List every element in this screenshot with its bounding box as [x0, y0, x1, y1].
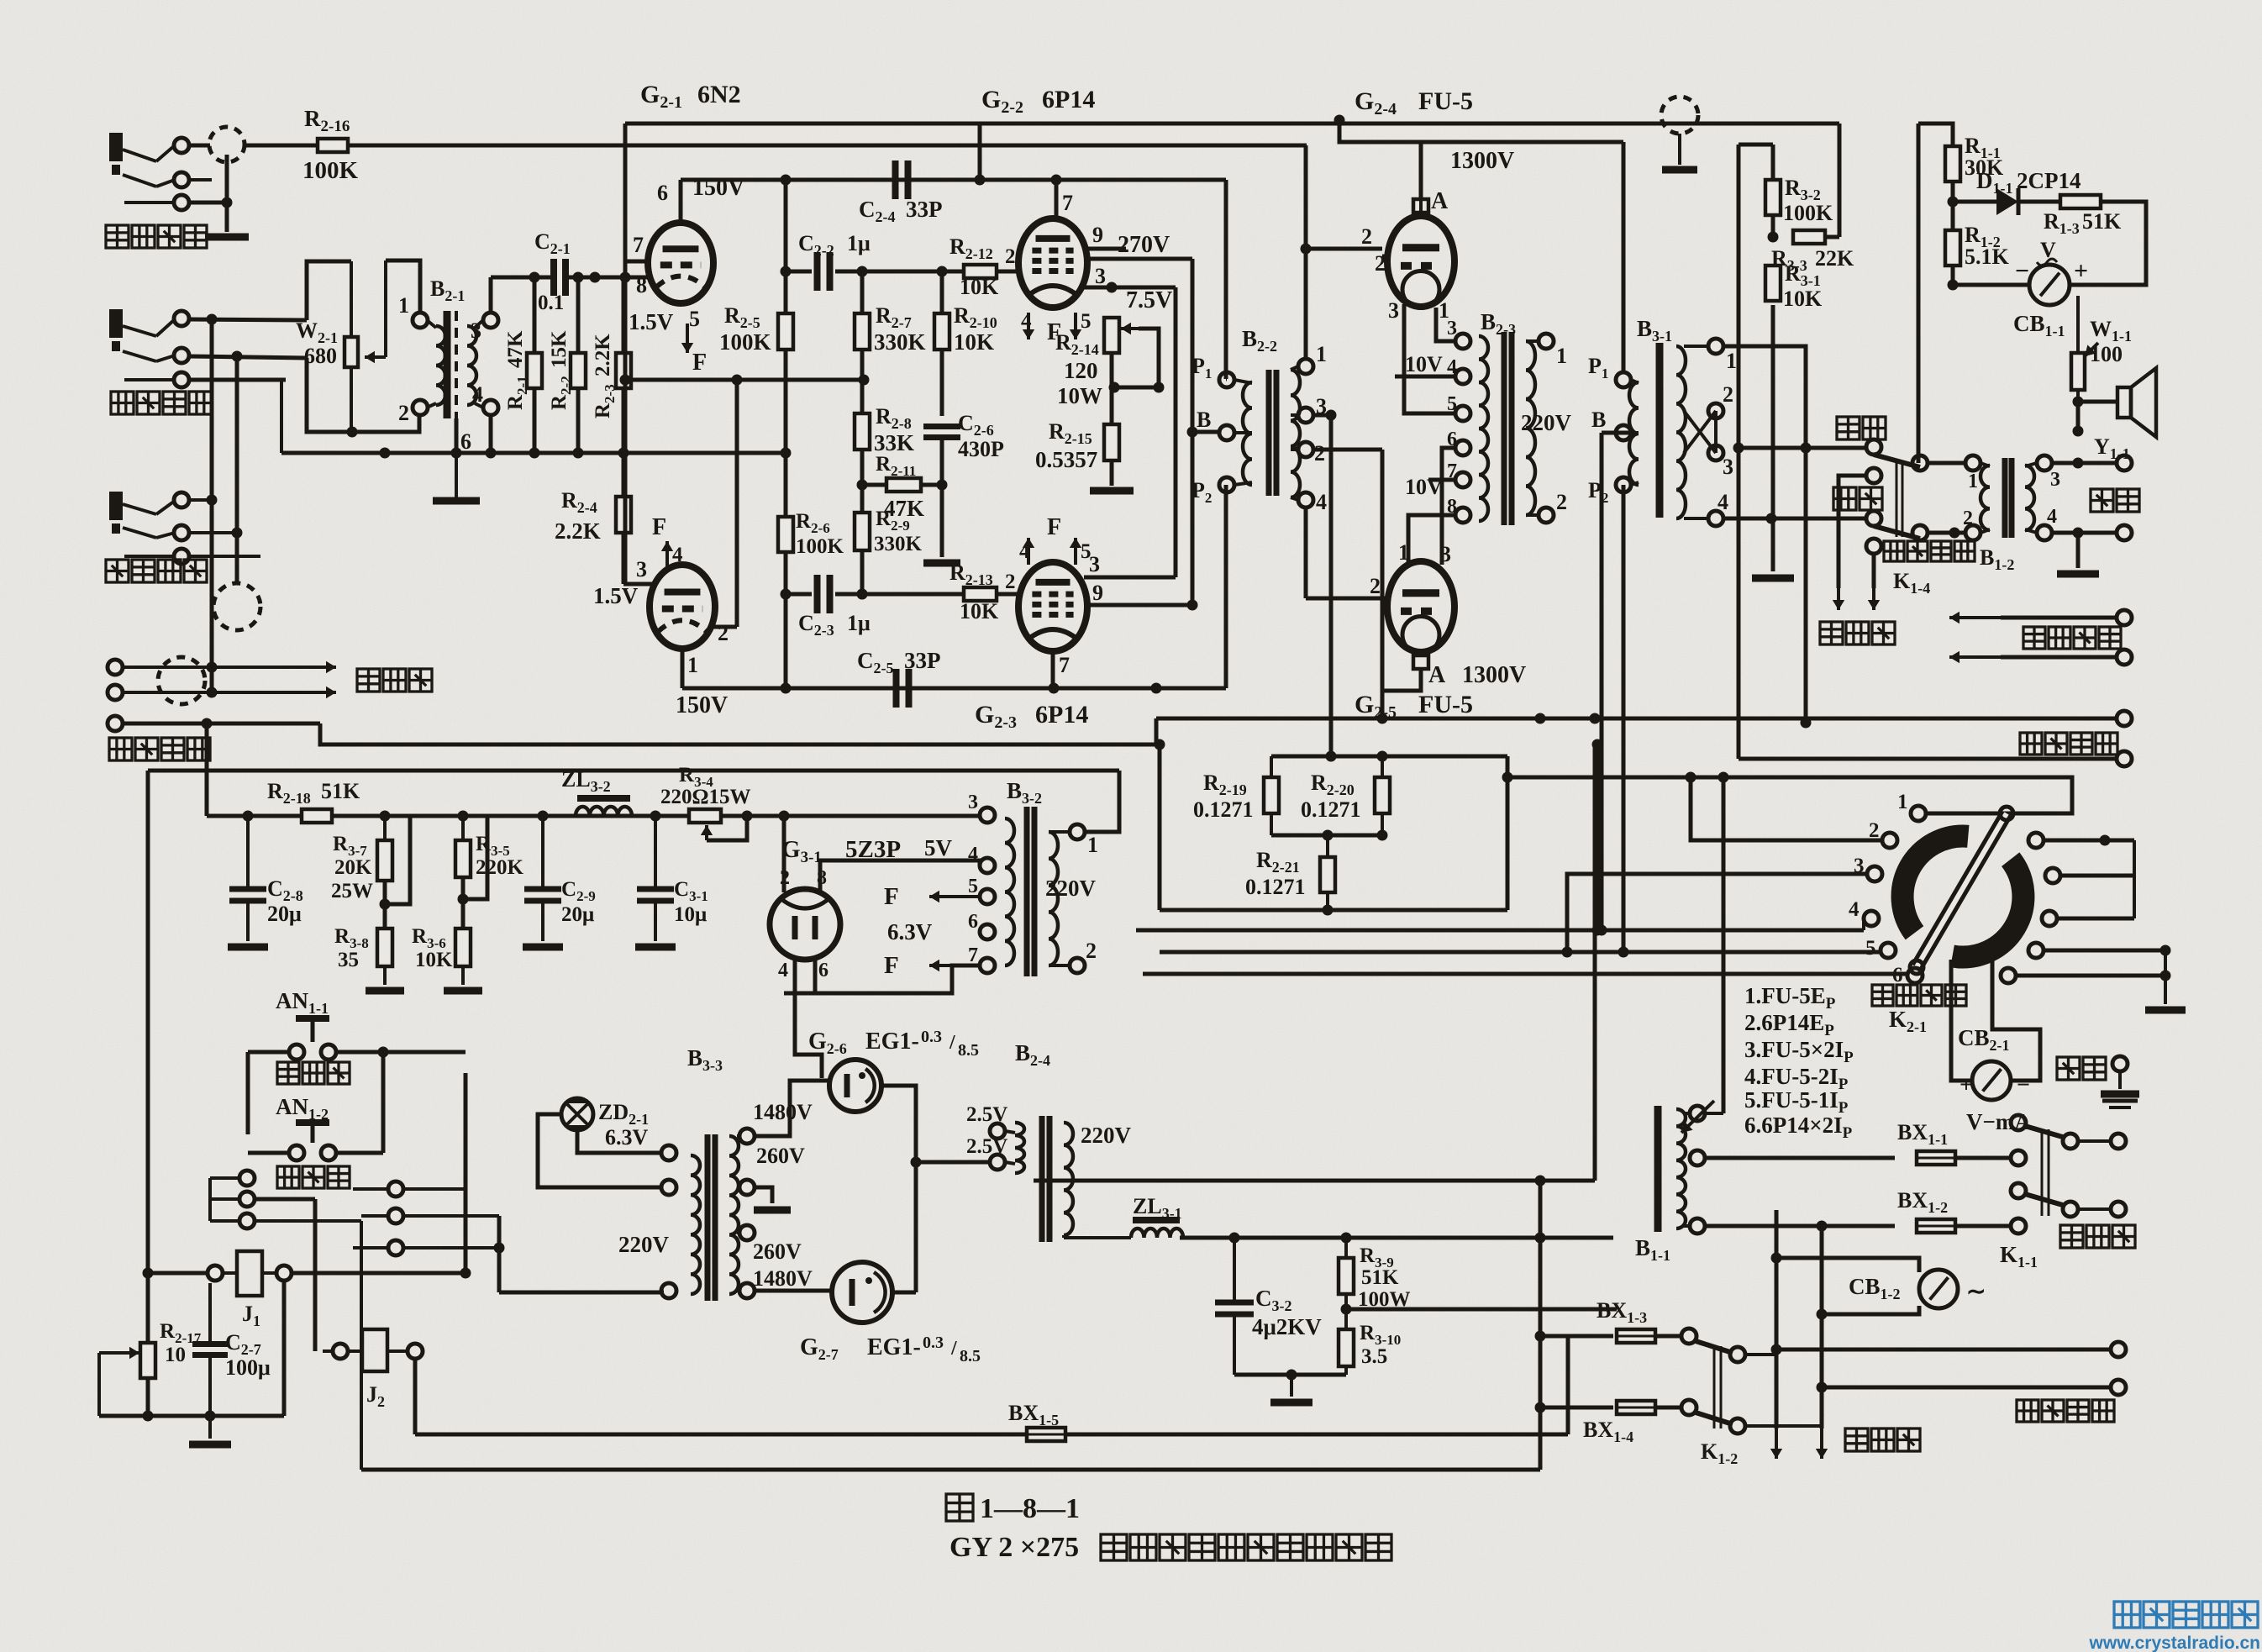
B2-3 left pin labels — [1447, 318, 1457, 518]
wire 1300V top — [1334, 115, 1624, 200]
svg-text:2CP14: 2CP14 — [2017, 168, 2081, 193]
wire left vertical J1 row — [143, 1268, 208, 1279]
wire G2-4 pin1 to B2-3 — [1436, 308, 1455, 341]
label R2-16 — [304, 106, 350, 135]
speaker Y1-1 — [2117, 368, 2156, 437]
svg-text:1: 1 — [1968, 471, 1978, 492]
resistor R1-1 — [1945, 146, 1960, 182]
svg-text:7: 7 — [633, 233, 644, 257]
B3-3 right coil — [729, 1136, 739, 1294]
wire C2-6 down — [937, 438, 948, 557]
B3-3 right terminals — [737, 1129, 755, 1298]
svg-text:10K: 10K — [960, 599, 999, 623]
fuse BX1-5 — [1027, 1428, 1065, 1441]
label G2-1 6N2 — [640, 81, 741, 112]
label B3-2 — [1007, 778, 1042, 807]
grid return vertical — [735, 380, 739, 627]
potentiometer W2-1 — [345, 260, 386, 432]
svg-text:100: 100 — [2090, 342, 2123, 366]
svg-text:1μ: 1μ — [847, 611, 871, 635]
label BX1-2 — [1897, 1188, 1948, 1216]
resistor R2-10 — [934, 313, 950, 350]
label R2-11 47K — [876, 453, 924, 521]
label 10V lower — [1405, 475, 1443, 499]
caption figure number — [946, 1493, 1080, 1524]
label R2-19 0.1271 — [1193, 771, 1254, 822]
svg-text:100μ: 100μ — [225, 1355, 271, 1380]
feed c5 — [1160, 947, 1881, 958]
svg-text:4: 4 — [1718, 490, 1728, 514]
B1-2 secondary — [2025, 455, 2052, 540]
wire B2-2 P1 stub — [1226, 377, 1227, 381]
label D1-1 2CP14 — [1976, 168, 2081, 197]
label ZD2-1 6.3V — [598, 1100, 649, 1150]
svg-text:20μ: 20μ — [561, 903, 594, 926]
svg-text:0.3: 0.3 — [923, 1334, 944, 1352]
wire G3-1 pin8 — [820, 860, 980, 891]
svg-text:6.6P14×2IP: 6.6P14×2IP — [1744, 1113, 1853, 1142]
wire R3-2 to R3-3 — [1768, 215, 1779, 243]
wire R1-3 to loop — [2070, 202, 2146, 285]
feed c6 — [1143, 974, 1907, 977]
wire B3-1 B left — [1602, 433, 1631, 930]
feedthrough ring B — [213, 583, 260, 630]
wire J1 right down — [282, 1281, 287, 1416]
HV rail — [1180, 1233, 1613, 1244]
wire G2-5 pin3 to B2-3 — [1442, 448, 1455, 565]
B2-4 left 2.5V terminals — [990, 1123, 1024, 1173]
arrows yi out — [1949, 610, 2132, 625]
label G3-1 5Z3P — [781, 836, 901, 866]
label BX1-3 — [1597, 1298, 1647, 1326]
tube G2-5 pins13 — [1398, 540, 1451, 566]
label C2-7 100u — [225, 1330, 271, 1380]
svg-text:2: 2 — [1086, 939, 1097, 963]
bus y1083 — [1160, 908, 1507, 913]
wire R2-9 down — [857, 550, 868, 600]
vertical x1833b — [1539, 1238, 1541, 1470]
lamp ZD2-1 — [561, 1098, 593, 1130]
svg-text:2.2K: 2.2K — [555, 518, 601, 544]
svg-text:220K: 220K — [476, 856, 524, 879]
svg-text:3: 3 — [2050, 469, 2060, 491]
label K1-1 — [2000, 1242, 2038, 1271]
label 1300V lower — [1462, 662, 1526, 688]
svg-text:7: 7 — [968, 944, 978, 966]
wire alt1 to arrow — [1833, 476, 1866, 610]
label C2-3 1u — [798, 611, 871, 639]
F arrow term7 — [884, 952, 980, 979]
wire 270V rail — [1086, 259, 1198, 605]
svg-text:5: 5 — [1081, 310, 1092, 333]
svg-text:F: F — [692, 350, 707, 376]
vertical R3-1 chain gnd — [1752, 305, 1794, 578]
B2-2 labels P1 B P2 — [1191, 354, 1212, 506]
label 2.2K — [555, 518, 601, 544]
wire R3-9 tap — [1346, 1181, 1617, 1309]
R3-5 R3-6 link — [458, 816, 488, 929]
svg-text:5: 5 — [1865, 937, 1876, 960]
label R2-4 — [561, 488, 597, 516]
cathode link 6P14s — [1174, 287, 1178, 577]
svg-text:6: 6 — [968, 911, 978, 933]
arrow quyi 2 — [1816, 1428, 1828, 1459]
AN1-1 contacts — [248, 1044, 466, 1060]
svg-text:F: F — [652, 514, 666, 540]
label BX1-1 — [1897, 1120, 1948, 1148]
B1-1 core — [1654, 1106, 1662, 1232]
wire B3-2 term2 — [1077, 973, 1125, 1034]
label R3-2 100K — [1783, 176, 1833, 225]
label R3-9 51K 100W — [1358, 1244, 1411, 1311]
wire R2-10 chain — [940, 271, 944, 416]
tube G2-2 pin9 wire — [1086, 223, 1126, 249]
label R3-6 10K — [412, 925, 453, 971]
label 220V B3-3 — [618, 1232, 670, 1257]
wire pot loop — [307, 260, 420, 438]
label W1-1 100 — [2090, 317, 2132, 366]
vertical x2114 — [1771, 1210, 1782, 1428]
R2-17 tap — [99, 1347, 148, 1416]
switch K1-2 a — [1696, 1341, 1776, 1362]
jack J-in4 (signal input 2) — [108, 660, 123, 731]
wire bank y1538 — [499, 1291, 664, 1295]
label 100K — [302, 157, 359, 184]
rotary switch K2-1 — [1902, 836, 2023, 957]
tube G2-1a pin6 wire — [657, 180, 681, 224]
svg-text:1: 1 — [1316, 342, 1327, 366]
wire top input line — [245, 144, 1307, 148]
label 监听选择 — [1884, 541, 1975, 561]
fuse BX1-3 line — [1535, 1331, 1614, 1342]
svg-text:4: 4 — [1316, 490, 1327, 514]
tube G2-3 pin9 wire — [1086, 581, 1198, 611]
svg-text:120: 120 — [1064, 358, 1098, 383]
svg-text:260V: 260V — [753, 1239, 802, 1264]
svg-text:220Ω15W: 220Ω15W — [660, 786, 751, 808]
AN1-2 contacts — [248, 1145, 383, 1160]
bus y886 staircase — [320, 718, 1156, 744]
wire B2-4 to ZL3-1 — [1034, 1123, 1131, 1238]
label R2-14 120 10W — [1055, 330, 1102, 408]
fuse BX1-4 line — [1535, 1402, 1614, 1413]
B3-2 left coils — [1005, 818, 1014, 965]
bus y925 to K2 box — [1507, 777, 2072, 813]
label B2-1 — [430, 276, 465, 304]
wire amp out2 — [1822, 1380, 2126, 1395]
label CB1-1 — [2013, 311, 2065, 339]
resistor R2-11 47K — [886, 478, 921, 492]
B3-3 left terminals — [661, 1145, 676, 1298]
svg-text:270V: 270V — [1118, 232, 1170, 258]
tube G2-3 pins45 F — [1019, 514, 1092, 565]
R3-7 R3-8 link — [380, 816, 411, 929]
label 150V — [692, 175, 744, 201]
coupling line C2-2 — [786, 266, 1019, 277]
resistor R2-2 — [571, 353, 586, 388]
svg-text:4: 4 — [2047, 506, 2057, 528]
watermark crystalradio — [2089, 1602, 2260, 1652]
label 1.5V lower — [593, 583, 639, 608]
AN box left — [246, 1052, 250, 1134]
label G2-5 FU-5 — [1355, 691, 1473, 722]
B2-3 right pin labels — [1556, 344, 1567, 514]
F arrow term5 — [884, 883, 980, 910]
capacitor C2-5 33P — [897, 669, 909, 708]
B1-2 primary coil — [1965, 455, 1990, 540]
svg-text:3: 3 — [636, 557, 647, 581]
K2-1 right wires — [2016, 777, 2186, 1010]
tube G2-5 — [1387, 561, 1455, 653]
label CB2-1 — [1958, 1025, 2010, 1054]
resistor R2-20 — [1375, 756, 1390, 835]
label 高压关 — [277, 1166, 350, 1188]
feedthrough top right — [1661, 97, 1698, 170]
svg-text:10K: 10K — [1783, 287, 1823, 311]
label C2-5 33P — [857, 648, 941, 676]
svg-text:4: 4 — [1021, 310, 1032, 333]
diode D1-1 — [1953, 188, 2060, 215]
wire R2-11 row — [862, 483, 942, 487]
tube G2-1a cathode arrow F — [681, 324, 707, 376]
capacitor C3-2 — [1215, 1238, 1254, 1375]
ground bottom left — [189, 1416, 231, 1444]
fuse BX1-2 — [1917, 1219, 1955, 1233]
label R1-2 5.1K — [1965, 223, 2010, 269]
resistor R3-10 — [1339, 1329, 1354, 1375]
K2-1 right vert — [2133, 840, 2136, 918]
wire G2-5 anode down — [1382, 669, 1421, 718]
wire node A down — [189, 155, 233, 232]
vertical 2138 — [1796, 777, 1797, 813]
wire jia out1 — [2117, 711, 2132, 726]
wire rail to term3 — [979, 815, 981, 816]
label 终前监听 — [106, 225, 207, 248]
label 220V B2-4 — [1081, 1123, 1132, 1148]
legend measurement select — [1744, 983, 1854, 1142]
resistor R3-1 — [1765, 266, 1781, 301]
svg-text:4: 4 — [1849, 898, 1860, 921]
svg-text:100K: 100K — [1783, 201, 1833, 225]
arrows yi out2 — [1949, 650, 2132, 665]
B1-2 sec labels — [2047, 469, 2060, 528]
resistor R2-16 — [318, 139, 348, 152]
resistor R2-17 — [140, 1343, 155, 1378]
label 1300V — [1450, 148, 1514, 174]
label 150V lower — [676, 692, 728, 718]
transformer B2-1 secondary coil — [467, 313, 498, 415]
svg-text:20K: 20K — [334, 856, 372, 879]
resistor R3-8 35 — [366, 929, 404, 991]
R2-14 tap loop — [1109, 323, 1165, 393]
resistor R2-15 — [1104, 424, 1119, 460]
capacitor C2-8 — [228, 816, 268, 947]
svg-text:8: 8 — [1447, 496, 1457, 518]
label ZL3-1 — [1133, 1194, 1182, 1222]
wire B2-2 B left stub — [1192, 430, 1219, 434]
vertical x1833 — [1539, 1181, 1543, 1470]
capacitor C2-3 1u — [818, 575, 830, 613]
svg-text:6.3V: 6.3V — [605, 1125, 649, 1150]
B3-1 secondary coil — [1676, 339, 1723, 526]
svg-text:+: + — [2074, 257, 2088, 285]
resistor R2-12 10K — [964, 265, 997, 278]
tube G3-1 — [770, 889, 840, 960]
svg-text:2.2K: 2.2K — [592, 334, 614, 376]
left main vertical — [146, 771, 150, 1343]
tube G2-3 pin7 wire — [1053, 651, 1070, 688]
svg-text:260V: 260V — [756, 1144, 805, 1168]
svg-text:7.5V: 7.5V — [1126, 287, 1172, 313]
label R2-15 0.5357 — [1035, 419, 1097, 472]
resistor R2-13 10K — [964, 587, 997, 601]
svg-text:51K: 51K — [1361, 1266, 1399, 1289]
label G2-2 6P14 — [981, 86, 1095, 117]
svg-text:10W: 10W — [1057, 383, 1102, 408]
svg-text:7: 7 — [1062, 191, 1073, 215]
wire R2-3 — [618, 277, 629, 459]
wire jack2-1 right — [189, 314, 307, 325]
svg-text:100K: 100K — [796, 535, 844, 558]
R3-4 tap — [701, 816, 747, 840]
label R3-8 35 — [334, 925, 369, 971]
label R2-10 10K — [954, 303, 997, 355]
svg-text:3.5: 3.5 — [1361, 1345, 1387, 1368]
B1-2 labels — [1963, 471, 1978, 529]
B3-2 terminal row — [980, 808, 995, 973]
svg-text:1: 1 — [1726, 349, 1737, 373]
transformer B2-1 core — [447, 311, 456, 418]
label C2-8 20u — [267, 876, 303, 926]
switch alt contacts — [1866, 468, 1881, 554]
B3-3 mid ground — [754, 1187, 791, 1210]
vertical x1898 — [1593, 744, 1597, 1181]
resistor R2-18 51K — [302, 809, 332, 823]
capacitor C2-9 — [523, 816, 563, 947]
svg-text:A: A — [1428, 662, 1446, 688]
ground terminal — [2101, 1056, 2139, 1107]
tube G2-1b lower triode — [650, 565, 715, 649]
svg-text:6P14: 6P14 — [1035, 701, 1088, 729]
bus y855 — [1156, 713, 2117, 724]
wire term1 to jia — [1723, 346, 1812, 729]
resistor R1-2 — [1945, 230, 1960, 266]
wire B2-2 sec1 up — [1304, 145, 1308, 359]
capacitor C2-7 — [192, 1273, 228, 1416]
contact bank verticals — [383, 1073, 499, 1292]
resistor R3-7 — [377, 816, 392, 881]
svg-text:33K: 33K — [874, 430, 914, 455]
label R3-5 220K — [476, 833, 524, 879]
label 0.1 — [538, 292, 564, 314]
label AN1-2 — [276, 1094, 329, 1123]
power rail — [332, 811, 980, 822]
wire G2-6 out — [881, 1086, 922, 1292]
svg-text:3: 3 — [471, 318, 481, 343]
svg-text:F: F — [884, 883, 899, 910]
B3-1 core — [1656, 343, 1664, 518]
wire R2-8 down — [857, 450, 868, 513]
tube G2-1a pin8 — [636, 273, 647, 297]
wire G2-5 pin1 to B2-3 — [1408, 515, 1455, 565]
svg-text:4: 4 — [672, 544, 683, 566]
meter CB1-1 — [2029, 265, 2070, 305]
label R2-17 10 — [160, 1320, 202, 1366]
wire R3-3 right — [1825, 124, 1839, 237]
wire R2-5 chain — [781, 180, 792, 517]
tube G2-1a upper triode — [648, 223, 713, 303]
tube G2-1a pin7 wire — [625, 233, 649, 261]
B2-2 secondary coil — [1291, 359, 1313, 508]
svg-text:33P: 33P — [906, 197, 943, 222]
svg-text:3: 3 — [1095, 264, 1106, 288]
label 接增音机 — [2017, 1400, 2114, 1422]
wire G3-1 pin6 — [813, 958, 818, 993]
label J1 — [242, 1302, 260, 1329]
wire BX1-4 out — [1655, 1400, 1696, 1415]
wire term4 to yi — [1723, 513, 1866, 524]
svg-text:10K: 10K — [415, 949, 453, 971]
wire pin3 junction — [1107, 282, 1176, 293]
bottom bus of input section — [281, 380, 792, 459]
wire BX1-2 to K11 — [1955, 1218, 2026, 1234]
wire G3-1 pin4 — [793, 958, 797, 993]
label R2-21 0.1271 — [1245, 848, 1306, 899]
label 信号输入 — [111, 392, 212, 414]
resistor R2-14 — [1104, 318, 1119, 353]
wire speaker — [2073, 397, 2118, 437]
svg-text:3.FU-5×2IP: 3.FU-5×2IP — [1744, 1037, 1854, 1066]
tube G2-4 — [1387, 216, 1455, 308]
label 高压开 — [277, 1062, 350, 1084]
svg-text:6: 6 — [1447, 429, 1457, 450]
label R2-147K — [504, 330, 530, 410]
label B1-2 — [1980, 545, 2014, 573]
wire R2-14 to R2-15 — [1110, 353, 1114, 424]
tube G2-4 pin1 — [1439, 298, 1449, 323]
label 地线 — [2057, 1057, 2106, 1080]
svg-text:1: 1 — [1087, 833, 1098, 857]
label 总电源 — [2060, 1225, 2135, 1248]
svg-text:330K: 330K — [874, 533, 923, 555]
svg-text:22K: 22K — [1815, 246, 1854, 271]
wire B2-1 sec4 down — [489, 415, 493, 453]
label C3-1 10u — [674, 878, 708, 926]
tube G2-4 pin3 — [1388, 298, 1399, 323]
svg-text:/: / — [949, 1032, 955, 1054]
K2-1 right contacts — [2001, 833, 2060, 983]
label AN1-1 — [276, 988, 329, 1017]
wire J2 out down — [413, 1359, 418, 1434]
label 6.3V — [887, 919, 933, 944]
svg-text:2: 2 — [718, 621, 729, 645]
svg-text:2: 2 — [1963, 508, 1973, 529]
label 测量选择 — [1872, 985, 1966, 1006]
svg-text:6: 6 — [818, 960, 829, 981]
svg-text:2.6P14EP: 2.6P14EP — [1744, 1010, 1834, 1039]
wire R2-17 bottom — [99, 1378, 284, 1422]
jack J-in1 (pre-terminal monitor) — [109, 133, 189, 210]
bus y1749 — [361, 1468, 1540, 1472]
label C3-2 4u2KV — [1252, 1286, 1322, 1339]
wire grid G2-4 tap — [1301, 224, 1383, 255]
resistor R2-9 — [855, 513, 870, 550]
tube G2-2 pin3 wire — [1084, 264, 1112, 288]
wire R2-7 chain — [860, 271, 865, 413]
label R3-7 20K 25W — [331, 833, 373, 902]
wire B1-1 t2 BX11 — [1705, 1156, 1895, 1160]
svg-text:6: 6 — [460, 429, 471, 454]
